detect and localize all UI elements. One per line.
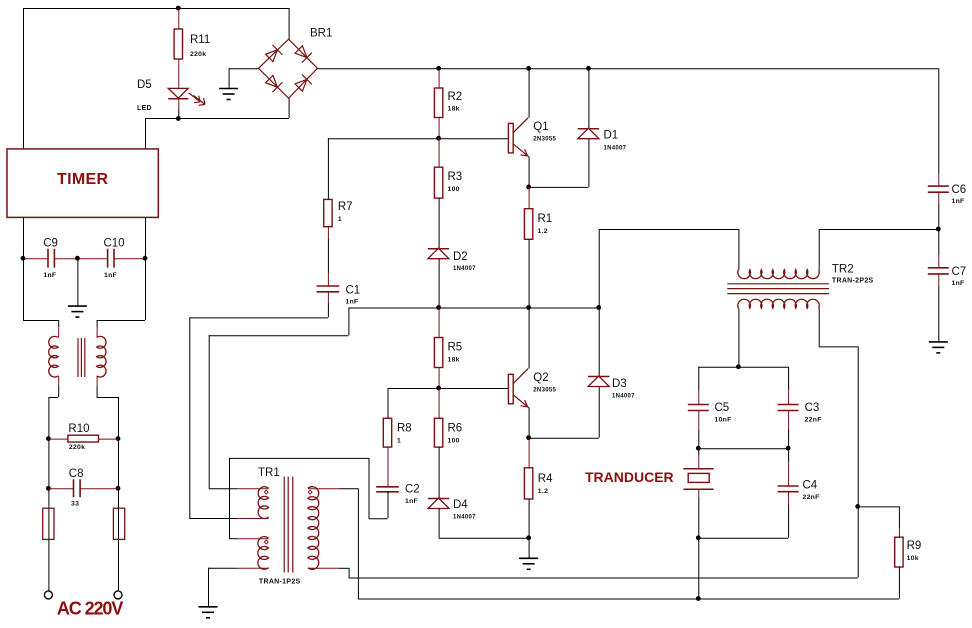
svg-text:D4: D4: [453, 499, 468, 511]
wire R4 ground stub: [528, 538, 530, 558]
wire right rail top: [938, 68, 940, 173]
bridge BR1 diamond: [259, 39, 318, 98]
label R3: [448, 171, 463, 183]
wire R9 top lead: [858, 506, 900, 528]
diode D3: [588, 376, 609, 387]
wire TR1 p1 top lead: [209, 488, 237, 490]
svg-text:AC 220V: AC 220V: [57, 599, 123, 619]
node tank top: [736, 364, 741, 369]
node C9 left: [21, 256, 26, 261]
diode D4: [428, 498, 449, 509]
node R4 bottom: [526, 535, 531, 540]
label R8: [397, 423, 412, 435]
svg-text:1N4007: 1N4007: [453, 515, 476, 521]
svg-text:C10: C10: [104, 238, 125, 250]
label R1: [538, 213, 553, 225]
transformer TR2 core: [727, 284, 829, 294]
ground under TR1: [199, 607, 218, 618]
wire C9-C10 lead: [54, 258, 107, 260]
label AC 220V: [57, 599, 123, 619]
svg-text:C8: C8: [69, 468, 84, 480]
svg-text:10nF: 10nF: [715, 417, 732, 424]
svg-text:1nF: 1nF: [43, 272, 56, 279]
wire R7 column top: [327, 138, 329, 199]
wire xfmr top-right stub: [96, 327, 98, 338]
value C5 10nF: [715, 417, 732, 424]
wire R10 left lead: [48, 438, 68, 440]
wire xfmr top-left jog: [23, 320, 59, 327]
node R10 right: [116, 436, 121, 441]
wire Q2 collector riser: [528, 308, 530, 369]
transformer TR2 secondary winding: [738, 299, 819, 308]
wire Q1e-D1: [529, 139, 589, 188]
ground under C9C10: [68, 306, 87, 317]
node base Q1: [436, 136, 441, 141]
node C8 right: [116, 486, 121, 491]
transistor Q1: [508, 123, 513, 152]
node Q1 emitter: [526, 185, 531, 190]
wire TR1 sec bottom lead: [339, 567, 349, 569]
svg-text:2N3055: 2N3055: [533, 388, 556, 394]
value R4 1.2: [538, 488, 548, 495]
label R2: [448, 91, 463, 103]
wire R1 bottom lead: [528, 239, 530, 307]
wire TR1 p2 bottom lead: [208, 567, 237, 569]
wire crystal top stub: [698, 455, 700, 468]
value C10 1nF: [104, 272, 117, 279]
svg-text:22nF: 22nF: [805, 417, 822, 424]
transformer TR1 core: [284, 477, 293, 573]
transformer left primary winding: [49, 336, 58, 377]
diode D1: [578, 128, 599, 139]
capacitor C8: [74, 479, 81, 497]
node LED-line junction: [176, 116, 181, 121]
svg-text:22nF: 22nF: [803, 494, 820, 501]
node R10 left: [46, 436, 51, 441]
wire R5 top lead: [438, 308, 440, 338]
wire left rail R10-C8: [48, 439, 50, 489]
node mid rail Q2c: [526, 305, 531, 310]
wire C7 top stub: [938, 255, 940, 267]
value R3 100: [448, 186, 460, 193]
LED D5: [168, 88, 205, 105]
wire TR2 secondary right lead: [819, 308, 859, 577]
node mid rail D3: [596, 305, 601, 310]
wire crystal bottom lead: [698, 497, 700, 538]
label R4: [538, 473, 553, 485]
value Q1 2N3055: [533, 137, 556, 143]
svg-text:TRAN-2P2S: TRAN-2P2S: [832, 278, 874, 285]
transistor Q1 emitter: [513, 144, 529, 157]
wire right rail mid: [938, 204, 940, 255]
capacitor C4: [778, 486, 799, 492]
svg-text:R5: R5: [448, 342, 463, 354]
value C2 1nF: [405, 498, 418, 505]
transistor Q2 collector: [513, 369, 528, 384]
value C9 1nF: [43, 272, 56, 279]
wire R6-D4: [438, 447, 440, 498]
wire C5 top stub: [698, 390, 700, 404]
label R9: [907, 540, 922, 552]
bridge diode top-left: [264, 45, 282, 63]
terminal right: [114, 591, 122, 599]
wire C5 bottom lead: [698, 430, 700, 448]
wire top rail: [23, 8, 289, 10]
wire bridge left to ground: [229, 68, 259, 88]
value R6 100: [448, 438, 460, 445]
wire TR1 p2 bottom lead stub: [237, 567, 269, 569]
node mid rail R5: [436, 305, 441, 310]
polarity dot TR1 primary 2: [264, 540, 268, 544]
svg-text:R2: R2: [448, 91, 463, 103]
wire bottom line lower: [358, 598, 899, 600]
svg-text:C4: C4: [803, 480, 818, 492]
svg-text:1: 1: [397, 438, 401, 445]
wire TR1 sec bottom jog: [348, 568, 350, 578]
wire C5 bottom stub: [698, 410, 700, 430]
wire C8 right lead: [80, 488, 118, 490]
label D1: [604, 130, 619, 142]
node top rail junction: [176, 6, 181, 11]
value R8 1: [397, 438, 401, 445]
svg-text:Q1: Q1: [533, 121, 548, 133]
value R11 220k: [190, 51, 206, 58]
wire R4 top lead: [528, 438, 530, 468]
label Q2: [533, 372, 548, 384]
label D2: [453, 251, 468, 263]
svg-text:R4: R4: [538, 473, 553, 485]
value C1 1nF: [346, 299, 359, 306]
bridge diode bottom-right: [294, 74, 312, 92]
wire C4 bottom lead: [788, 505, 790, 538]
wire C3 bottom stub: [788, 410, 790, 430]
label TR2: [832, 264, 854, 276]
label C4: [803, 480, 818, 492]
label R11: [190, 34, 210, 46]
svg-text:TRAN-1P2S: TRAN-1P2S: [259, 579, 301, 586]
transistor Q1 collector: [513, 118, 528, 133]
svg-text:33: 33: [71, 501, 79, 508]
label R7: [338, 201, 353, 213]
wire base rail Q1: [328, 138, 509, 140]
wire C4 top lead: [788, 448, 790, 462]
terminal left: [44, 591, 52, 599]
svg-text:1nF: 1nF: [104, 272, 117, 279]
label C8: [69, 468, 84, 480]
node base Q2: [436, 386, 441, 391]
node R9 branch: [855, 504, 860, 509]
wire LED row: [145, 118, 289, 120]
wire C3 top stub: [788, 390, 790, 404]
wire R3-D2: [438, 198, 440, 248]
capacitor C9: [48, 249, 54, 268]
wire R2-node: [438, 118, 440, 139]
svg-text:220k: 220k: [69, 444, 85, 451]
wire xfmr bottom-right stub: [96, 376, 98, 386]
wire C2 bottom path: [229, 458, 388, 538]
fuse left: [43, 508, 54, 539]
bridge diode top-right: [294, 45, 312, 63]
svg-text:1N4007: 1N4007: [453, 266, 476, 272]
wire right rail bottom: [938, 286, 940, 341]
wire D3 top lead: [598, 308, 600, 377]
wire R5 bottom lead: [438, 368, 440, 389]
node C8 left: [46, 486, 51, 491]
wire R8-C2: [387, 447, 389, 486]
value R10 220k: [69, 444, 85, 451]
capacitor C3: [778, 405, 799, 411]
label D3: [612, 378, 627, 390]
resistor R8: [383, 418, 391, 447]
svg-text:C1: C1: [346, 285, 361, 297]
wire TR1 p2 top lead: [229, 538, 237, 540]
wire bridge bottom lead: [288, 98, 290, 118]
svg-text:R11: R11: [190, 34, 210, 46]
wire R7 bottom stub: [327, 227, 329, 239]
svg-text:1nF: 1nF: [952, 198, 965, 205]
wire R10 right lead: [99, 438, 119, 440]
wire R9 top stub: [898, 528, 900, 537]
wire TR1 p1 bottom lead stub: [237, 518, 269, 520]
wire D5 bottom lead black: [178, 109, 180, 118]
wire crystal bottom stub: [698, 489, 700, 497]
wire R9 bottom lead: [898, 567, 900, 599]
wire D5 bottom lead: [178, 98, 180, 109]
node tank bottom: [696, 535, 701, 540]
value C7 1nF: [952, 280, 965, 287]
wire R11-D5: [178, 59, 180, 88]
svg-text:C6: C6: [952, 184, 967, 196]
transistor Q2: [508, 374, 513, 404]
label TIMER: [57, 171, 108, 188]
value D2 1N4007: [453, 266, 476, 272]
wire R11 top lead: [178, 8, 180, 29]
label R5: [448, 342, 463, 354]
transformer TR1 secondary winding: [308, 487, 319, 570]
svg-text:R9: R9: [907, 540, 922, 552]
svg-text:TIMER: TIMER: [57, 171, 108, 188]
svg-text:1.2: 1.2: [538, 228, 548, 235]
wire C3 bottom lead: [788, 430, 790, 448]
value D5 LED: [137, 105, 152, 112]
transformer left core: [78, 338, 85, 377]
svg-text:TR2: TR2: [832, 264, 854, 276]
label C9: [43, 238, 58, 250]
svg-text:2N3055: 2N3055: [533, 137, 556, 143]
wire D2-rail: [438, 259, 440, 308]
svg-text:R8: R8: [397, 423, 412, 435]
wire R6 top lead: [438, 388, 440, 418]
block TIMER box: [7, 149, 158, 218]
svg-text:LED: LED: [137, 105, 152, 112]
svg-text:100: 100: [448, 438, 460, 445]
wire xfmr bottom-right jog: [97, 386, 119, 439]
wire xfmr top-left stub: [58, 327, 60, 338]
wire C1 bottom path: [189, 303, 328, 518]
label C6: [952, 184, 967, 196]
svg-text:1N4007: 1N4007: [604, 146, 627, 152]
wire xfmr bottom-left stub: [58, 376, 60, 386]
wire right rail R10-C8: [118, 439, 120, 489]
label R10: [68, 423, 89, 435]
capacitor C6: [928, 186, 949, 192]
wire left rail: [23, 8, 25, 149]
transformer TR1 primary winding 2: [258, 537, 269, 570]
value C6 1nF: [952, 198, 965, 205]
label TR1: [258, 467, 280, 479]
wire TR1 p1 bottom lead: [189, 518, 237, 520]
transformer TR2 primary winding: [738, 270, 819, 279]
label Q1: [533, 121, 548, 133]
value R7 1: [338, 216, 342, 223]
svg-text:R7: R7: [338, 201, 353, 213]
value TR1 TRAN-1P2S: [259, 579, 301, 586]
label C1: [346, 285, 361, 297]
capacitor C2: [376, 487, 399, 492]
polarity dot TR1 primary 1: [264, 490, 268, 494]
svg-text:1.2: 1.2: [538, 488, 548, 495]
svg-text:1: 1: [338, 216, 342, 223]
capacitor C5: [688, 405, 709, 411]
fuse right: [113, 508, 124, 539]
node tank mid left: [696, 446, 701, 451]
svg-text:18k: 18k: [448, 106, 460, 113]
ground at bridge: [219, 89, 238, 100]
svg-text:1N4007: 1N4007: [612, 394, 635, 400]
wire tank to bottom line: [698, 538, 700, 599]
svg-text:D5: D5: [137, 79, 152, 91]
svg-text:TR1: TR1: [258, 467, 280, 479]
crystal transducer: [683, 469, 713, 489]
value R1 1.2: [538, 228, 548, 235]
label C7: [952, 266, 967, 278]
wire C8 left lead: [48, 488, 73, 490]
wire Q2 emitter riser: [528, 408, 530, 438]
wire xfmr top-right jog: [97, 320, 145, 327]
wire TIMER right bottom: [145, 217, 147, 320]
wire tank bottom rail: [698, 537, 788, 539]
wire right rail to fuse: [118, 488, 120, 591]
svg-text:D1: D1: [604, 130, 619, 142]
ground right rail: [929, 342, 948, 353]
wire TR2 primary right lead: [819, 229, 939, 270]
wire TR1 p2 ground riser: [208, 568, 210, 607]
wire TIMER left bottom: [23, 217, 25, 320]
wire D4 bottom path: [439, 509, 529, 539]
label R6: [448, 423, 463, 435]
node Vrail Q1: [526, 66, 531, 71]
label C5: [715, 402, 730, 414]
wire crystal top lead: [698, 448, 700, 455]
polarity dot TR1 secondary: [308, 490, 312, 494]
resistor R9: [895, 537, 903, 567]
wire bottom line upper: [349, 577, 858, 579]
label BR1: [310, 28, 332, 40]
svg-text:100: 100: [448, 186, 460, 193]
wire TR1 sec top lead stub: [308, 488, 340, 490]
node tank mid right: [786, 446, 791, 451]
label D5: [137, 79, 152, 91]
transformer TR1 primary winding 1: [258, 487, 268, 519]
svg-text:1nF: 1nF: [405, 498, 418, 505]
label C2: [405, 484, 420, 496]
svg-text:C3: C3: [805, 402, 820, 414]
wire base rail Q2: [388, 388, 509, 390]
transistor Q2 emitter: [513, 395, 529, 408]
value D1 1N4007: [604, 146, 627, 152]
wire mid ground riser: [77, 258, 79, 305]
wire mid rail: [348, 307, 598, 309]
wire Q1 emitter riser: [528, 157, 530, 187]
wire R3 top lead: [438, 138, 440, 167]
resistor R10: [68, 435, 99, 442]
capacitor C1: [317, 286, 340, 292]
wire TR1 sec top lead: [340, 488, 358, 490]
wire R7-C1: [327, 239, 329, 273]
wire C9 lead a: [23, 258, 48, 260]
node Q2 emitter: [526, 435, 531, 440]
svg-text:R6: R6: [448, 423, 463, 435]
node C6C7 mid: [936, 227, 941, 232]
value D4 1N4007: [453, 515, 476, 521]
resistor R2: [434, 88, 442, 118]
wire Q1 collector riser: [528, 68, 530, 118]
svg-text:C5: C5: [715, 402, 730, 414]
svg-text:R1: R1: [538, 213, 553, 225]
wire C10 lead b: [114, 258, 146, 260]
svg-text:Q2: Q2: [533, 372, 548, 384]
resistor R4: [524, 468, 532, 499]
wire C1 top stub: [327, 273, 329, 286]
svg-text:1nF: 1nF: [346, 299, 359, 306]
transformer left secondary winding: [97, 336, 106, 377]
label C10: [104, 238, 125, 250]
label TRANDUCER: [585, 469, 674, 485]
resistor R6: [434, 418, 442, 447]
wire C5 top lead: [698, 367, 700, 390]
svg-text:BR1: BR1: [310, 28, 332, 40]
svg-text:1nF: 1nF: [952, 280, 965, 287]
node Vrail R2: [436, 66, 441, 71]
wire C3 top lead: [788, 367, 790, 390]
svg-text:D3: D3: [612, 378, 627, 390]
node C9C10 mid: [75, 256, 80, 261]
label D4: [453, 499, 468, 511]
wire tank mid rail: [698, 448, 788, 450]
wire bridge right lead: [317, 68, 938, 70]
value R5 18k: [448, 357, 460, 364]
svg-text:C2: C2: [405, 484, 420, 496]
resistor R5: [434, 338, 442, 368]
ground under R4: [519, 558, 538, 569]
wire C6 bottom stub: [938, 192, 940, 204]
value Q2 2N3055: [533, 388, 556, 394]
capacitor C7: [928, 268, 949, 274]
svg-text:18k: 18k: [448, 357, 460, 364]
wire left rail to fuse: [48, 488, 50, 591]
wire TR1 sec bottom lead stub: [308, 567, 339, 569]
wire TR2 secondary left lead: [738, 308, 740, 367]
wire tank top rail: [698, 366, 788, 368]
resistor R1: [524, 209, 532, 240]
value C4 22nF: [803, 494, 820, 501]
label C3: [805, 402, 820, 414]
value C8 33: [71, 501, 79, 508]
wire xfmr bottom-left jog: [48, 386, 58, 439]
capacitor C10: [108, 249, 114, 268]
wire R4 bottom lead: [528, 499, 530, 538]
svg-text:C9: C9: [43, 238, 58, 250]
